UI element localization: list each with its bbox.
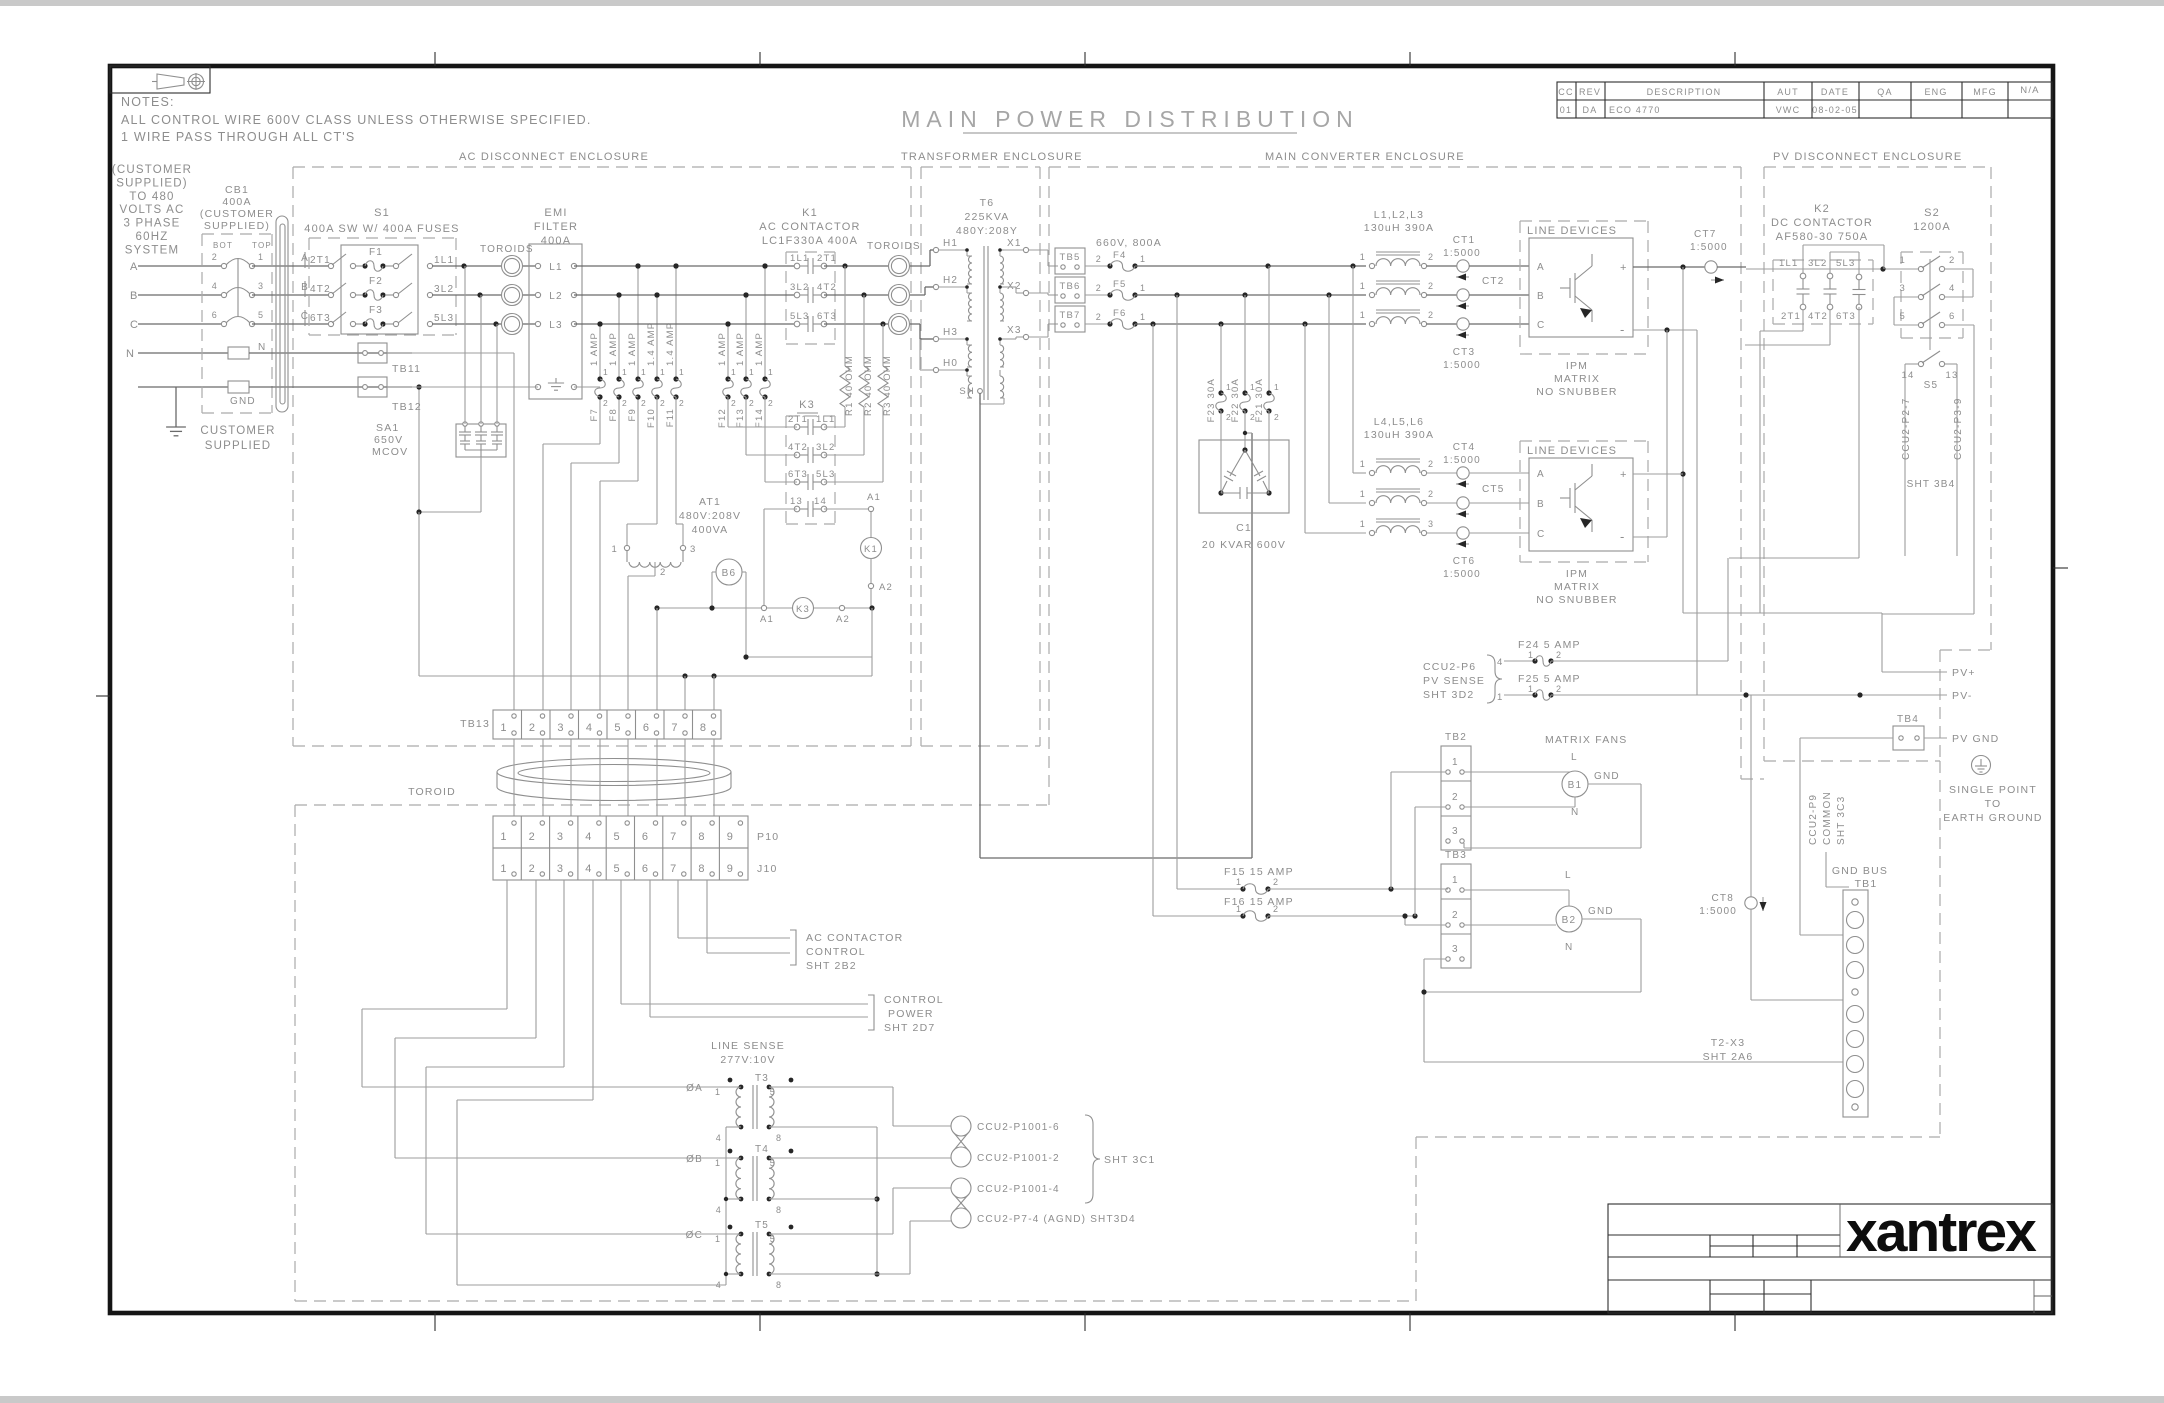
terminal block TB6: [1055, 277, 1085, 303]
svg-text:AC CONTACTOR: AC CONTACTOR: [806, 932, 903, 944]
svg-text:7: 7: [670, 863, 677, 875]
svg-text:8: 8: [776, 1205, 782, 1215]
svg-text:(CUSTOMER: (CUSTOMER: [200, 208, 274, 220]
svg-text:S5: S5: [1924, 380, 1939, 391]
contactor K1 dashed box: [786, 252, 835, 344]
svg-text:NOTES:: NOTES:: [121, 95, 175, 109]
connector J10: [493, 848, 778, 880]
svg-text:LINE DEVICES: LINE DEVICES: [1527, 445, 1617, 457]
svg-text:1: 1: [612, 544, 618, 555]
svg-text:CONTROL: CONTROL: [806, 946, 866, 958]
svg-text:F23 30A: F23 30A: [1206, 378, 1217, 422]
svg-text:SH: SH: [959, 386, 975, 397]
contactor K3 dashed box: [786, 416, 835, 524]
wire IPM1 minus output: [1633, 327, 1697, 332]
svg-text:1: 1: [1140, 254, 1146, 264]
svg-text:F13: F13: [735, 408, 746, 428]
svg-text:1.4 AMP: 1.4 AMP: [665, 322, 676, 366]
capacitor bank C1 box: [1199, 411, 1289, 513]
svg-text:LINE SENSE: LINE SENSE: [711, 1040, 785, 1052]
svg-text:N: N: [1571, 807, 1579, 818]
wire J10-3 to phase C sense: [426, 880, 741, 1234]
SA1 labels: [372, 422, 408, 458]
svg-text:1: 1: [1236, 877, 1242, 887]
wire minus bus to PV-: [1696, 330, 1698, 695]
contactor K3 label: [797, 399, 818, 413]
IPM line devices 2 box: [1527, 445, 1633, 551]
GND bus TB1 strip: [1843, 890, 1868, 1117]
PV disconnect enclosure dashed box: [1764, 167, 1991, 761]
svg-text:TB12: TB12: [392, 401, 422, 413]
svg-text:CCU2-P1001-2: CCU2-P1001-2: [977, 1153, 1060, 1164]
svg-text:1: 1: [1360, 489, 1366, 499]
terminal block TB12: [358, 377, 422, 413]
blower B6: [712, 559, 746, 657]
SA1 ground return: [416, 384, 481, 514]
fuse F4: [1085, 250, 1146, 271]
wire C S1 to EMI: [432, 321, 538, 326]
svg-text:T3: T3: [755, 1073, 769, 1084]
wire J10-1 to phase A sense: [362, 880, 741, 1087]
svg-text:N: N: [258, 342, 266, 353]
wire A CB1 to S1: [252, 265, 331, 267]
wire T3-5 to CCU2 pair1 top: [769, 1087, 951, 1126]
svg-text:5: 5: [614, 863, 621, 875]
PV sense labels: [1423, 655, 1503, 703]
svg-text:L: L: [1571, 752, 1578, 763]
svg-text:TOP: TOP: [252, 241, 272, 250]
switch S1 pole A fuse F1: [301, 247, 454, 271]
svg-text:K1: K1: [802, 207, 818, 219]
twisted pair 2: [951, 1178, 971, 1228]
svg-text:5L3: 5L3: [790, 311, 809, 322]
svg-text:2: 2: [1428, 310, 1434, 320]
svg-text:2: 2: [1428, 252, 1434, 262]
svg-text:2: 2: [529, 863, 536, 875]
fuse F15 15 AMP: [1177, 295, 1448, 894]
AC disconnect enclosure dashed box: [293, 167, 911, 746]
toroid A1: [502, 256, 523, 277]
toroid A2: [889, 256, 910, 277]
svg-text:AUT: AUT: [1777, 87, 1799, 97]
SA1 phase risers: [465, 266, 497, 424]
EMI filter terminals L1: [535, 262, 576, 273]
svg-text:F3: F3: [369, 305, 383, 316]
contactor K1 pole A: [790, 253, 837, 274]
switch S1 inner box: [341, 245, 418, 334]
svg-text:2: 2: [1273, 877, 1279, 887]
svg-text:6T3: 6T3: [788, 469, 808, 480]
svg-text:GND: GND: [1588, 906, 1614, 917]
svg-text:+: +: [1620, 469, 1628, 481]
svg-text:4: 4: [1949, 283, 1955, 294]
svg-text:TOROIDS: TOROIDS: [480, 244, 534, 255]
svg-text:6T3: 6T3: [817, 311, 837, 322]
fuse F9 1 AMP: [627, 263, 647, 421]
earth ground symbol: [1972, 756, 1991, 775]
svg-text:277V:10V: 277V:10V: [720, 1054, 775, 1066]
svg-text:CT2: CT2: [1482, 276, 1505, 287]
svg-text:TB5: TB5: [1059, 252, 1080, 263]
neutral inline device: [228, 342, 266, 359]
wire F12 to K3 pole1: [728, 397, 797, 427]
svg-text:LC1F330A 400A: LC1F330A 400A: [762, 235, 858, 247]
wire control return bus: [419, 512, 872, 679]
svg-text:F9: F9: [627, 408, 638, 422]
svg-text:xantrex: xantrex: [1846, 1200, 2037, 1264]
svg-text:225KVA: 225KVA: [965, 211, 1010, 223]
IPM line devices 1 dashed box: [1520, 221, 1648, 354]
contactor K3 pole 2: [788, 442, 835, 463]
title block: [1608, 1204, 2052, 1313]
wire phase C in: [138, 323, 224, 325]
EMI filter terminals L2: [535, 291, 576, 302]
toroid C2: [889, 314, 910, 335]
IPM matrix label 1: [1536, 360, 1617, 398]
svg-text:1: 1: [1360, 252, 1366, 262]
contactor K2 labels: [1771, 203, 1873, 243]
svg-text:CCU2-P2-7: CCU2-P2-7: [1901, 398, 1912, 460]
wire B S1 to EMI: [432, 292, 538, 297]
svg-text:2: 2: [529, 722, 536, 734]
wire plus bus riser: [1633, 267, 1686, 613]
svg-text:1: 1: [768, 367, 774, 377]
svg-text:A: A: [130, 261, 139, 273]
svg-text:60HZ: 60HZ: [136, 231, 169, 243]
wire H0 link: [920, 339, 934, 370]
svg-text:14: 14: [814, 496, 827, 507]
svg-text:C: C: [1537, 320, 1545, 331]
sheet border frame: [110, 66, 2053, 1313]
svg-text:4: 4: [716, 1205, 722, 1215]
svg-text:1 AMP: 1 AMP: [589, 332, 600, 366]
wire neutral in: [138, 352, 228, 354]
EMI filter labels: [534, 207, 578, 247]
switch S1 labels: [304, 207, 459, 235]
wire A EMI to K1: [574, 263, 797, 268]
fuse F7 1 AMP: [589, 321, 609, 421]
wire PV plus bus: [1683, 307, 1947, 672]
wire SH shield run: [980, 393, 1252, 858]
svg-text:480V:208V: 480V:208V: [679, 510, 741, 522]
svg-text:L: L: [1565, 870, 1572, 881]
fuse F23 30A: [1206, 324, 1232, 422]
svg-text:1: 1: [715, 1234, 721, 1244]
svg-text:8: 8: [698, 863, 705, 875]
coil K3: [760, 598, 875, 626]
svg-text:N: N: [126, 348, 135, 360]
svg-text:SUPPLIED): SUPPLIED): [116, 177, 188, 189]
svg-text:1:5000: 1:5000: [1443, 360, 1481, 371]
svg-text:400A: 400A: [541, 235, 572, 247]
svg-text:2: 2: [1274, 412, 1280, 422]
svg-text:1: 1: [660, 367, 666, 377]
switch S2 links: [1894, 259, 1974, 350]
ground lead down: [175, 387, 177, 427]
wire F13 to K3 pole2: [746, 397, 797, 455]
wire F10 to AT1-1: [627, 397, 657, 545]
svg-text:1: 1: [1900, 255, 1906, 266]
wire J10-8 contactor control 2: [707, 880, 790, 953]
switch S2 dashed box: [1901, 252, 1963, 338]
switch S1 pole B fuse F2: [301, 276, 454, 300]
svg-text:1: 1: [1360, 281, 1366, 291]
svg-text:K3: K3: [799, 399, 815, 411]
fold tick marks bottom: [434, 1313, 436, 1331]
svg-text:CT5: CT5: [1482, 484, 1505, 495]
wire J10-7 contactor control 1: [678, 880, 790, 938]
svg-text:F2: F2: [369, 276, 383, 287]
svg-text:2T1: 2T1: [1781, 311, 1801, 322]
wire R2 to K3 pole2: [824, 407, 864, 455]
svg-text:TO: TO: [1985, 798, 2002, 810]
fuse F21 30A: [1254, 266, 1280, 422]
svg-text:3L2: 3L2: [434, 284, 454, 295]
svg-text:9: 9: [727, 863, 734, 875]
svg-text:NO SNUBBER: NO SNUBBER: [1536, 594, 1617, 606]
inductor L2: [1360, 281, 1434, 298]
svg-text:SYSTEM: SYSTEM: [125, 244, 180, 256]
svg-text:X1: X1: [1007, 238, 1022, 249]
breaker CB1 pole C: [212, 310, 264, 327]
svg-text:B: B: [1537, 291, 1545, 302]
svg-text:8: 8: [700, 722, 707, 734]
svg-text:2: 2: [1096, 312, 1102, 322]
svg-text:REV: REV: [1579, 87, 1601, 97]
svg-text:K1: K1: [864, 544, 878, 555]
svg-text:CT6: CT6: [1453, 556, 1476, 567]
svg-text:L2: L2: [549, 291, 563, 302]
svg-text:S1: S1: [374, 207, 390, 219]
svg-text:CONTROL: CONTROL: [884, 994, 944, 1006]
svg-text:3: 3: [557, 863, 564, 875]
contactor K2 dashed box: [1773, 260, 1873, 324]
svg-text:CT1: CT1: [1453, 235, 1476, 246]
svg-text:TB13: TB13: [460, 718, 490, 730]
svg-text:T5: T5: [755, 1220, 769, 1231]
svg-text:1: 1: [1528, 650, 1534, 660]
svg-text:6T3: 6T3: [310, 313, 331, 324]
svg-text:ENG: ENG: [1924, 87, 1947, 97]
svg-text:5L3: 5L3: [434, 313, 454, 324]
fuse F5: [1085, 279, 1146, 300]
svg-text:B6: B6: [722, 568, 737, 579]
svg-text:1 AMP: 1 AMP: [754, 332, 765, 366]
svg-text:LINE DEVICES: LINE DEVICES: [1527, 225, 1617, 237]
svg-text:8: 8: [698, 831, 705, 843]
CT3 current transformer: [1427, 318, 1529, 371]
svg-text:F8: F8: [608, 408, 619, 422]
svg-text:SUPPLIED: SUPPLIED: [205, 440, 271, 452]
svg-text:2: 2: [1096, 254, 1102, 264]
terminal block TB13: [460, 710, 721, 739]
fuse F24 5 AMP: [1504, 558, 1728, 666]
svg-text:CCU2-P7-4 (AGND) SHT3D4: CCU2-P7-4 (AGND) SHT3D4: [977, 1214, 1136, 1225]
wire ground in: [138, 386, 228, 388]
svg-text:4: 4: [1497, 657, 1503, 668]
wire X2 to TB6: [1029, 293, 1058, 295]
svg-text:2: 2: [768, 398, 774, 408]
svg-text:3: 3: [690, 544, 696, 555]
terminal block TB11: [358, 343, 421, 375]
svg-text:400VA: 400VA: [692, 524, 729, 536]
svg-text:F16 15 AMP: F16 15 AMP: [1224, 896, 1294, 908]
svg-text:1: 1: [641, 367, 647, 377]
svg-text:6: 6: [212, 310, 218, 320]
inductor bank L4 L5 L6 labels: [1364, 416, 1434, 441]
wire X1 to TB5: [1029, 250, 1058, 266]
svg-text:MAIN POWER DISTRIBUTION: MAIN POWER DISTRIBUTION: [901, 106, 1358, 132]
CCU2-P9 common labels: [1808, 791, 1849, 887]
resistor R2 40 OHM: [859, 295, 874, 416]
svg-text:2: 2: [749, 398, 755, 408]
wire A S1 to EMI: [432, 263, 538, 268]
breaker CB1 pole A: [212, 252, 264, 269]
wire S2-6 to PV plus: [1882, 325, 1974, 614]
svg-text:4: 4: [716, 1280, 722, 1290]
svg-text:SHT 2B2: SHT 2B2: [806, 960, 857, 972]
svg-text:1 WIRE PASS THROUGH ALL CT'S: 1 WIRE PASS THROUGH ALL CT'S: [121, 130, 355, 144]
svg-text:L1,L2,L3: L1,L2,L3: [1374, 209, 1424, 221]
svg-text:1L1: 1L1: [790, 253, 809, 264]
fuse F25 5 AMP: [1504, 673, 1700, 700]
toroid B1: [502, 285, 523, 306]
wire AT1 tap2 to TB13-5: [628, 562, 655, 710]
svg-text:8: 8: [776, 1133, 782, 1143]
svg-text:7: 7: [670, 831, 677, 843]
svg-text:13: 13: [790, 496, 803, 507]
wire X3 to TB7: [1029, 324, 1058, 337]
svg-text:2: 2: [1428, 281, 1434, 291]
svg-text:4: 4: [585, 831, 592, 843]
contactor K2 top bus: [1803, 245, 1884, 274]
contactor K2 pole 5L3-6T3: [1836, 258, 1866, 322]
svg-text:ØA: ØA: [686, 1083, 703, 1094]
transformer T6 primary terminals: [933, 238, 958, 373]
svg-text:TO 480: TO 480: [129, 191, 174, 203]
svg-text:+: +: [1620, 262, 1628, 274]
ground symbol customer: [166, 427, 186, 436]
svg-text:PV DISCONNECT ENCLOSURE: PV DISCONNECT ENCLOSURE: [1773, 151, 1962, 163]
wire F14 to K3 pole3: [765, 397, 797, 482]
svg-text:POWER: POWER: [888, 1008, 934, 1020]
transformer T6 secondary winding: [998, 248, 1004, 398]
svg-text:5: 5: [614, 831, 621, 843]
wire GND to TB12: [249, 386, 412, 388]
svg-text:2: 2: [622, 398, 628, 408]
IPM line devices 2 dashed box: [1520, 441, 1648, 562]
toroid B2: [889, 285, 910, 306]
svg-text:2: 2: [1428, 489, 1434, 499]
svg-text:1 AMP: 1 AMP: [608, 332, 619, 366]
wire A1 bus to TB13-6: [656, 608, 658, 710]
svg-text:SHT 2D7: SHT 2D7: [884, 1022, 935, 1034]
svg-text:A: A: [1537, 469, 1545, 480]
T2-X3 labels: [1703, 1037, 1754, 1063]
svg-text:SHT 3C1: SHT 3C1: [1104, 1154, 1155, 1166]
SA1 box: [456, 422, 506, 457]
svg-text:SHT 3C3: SHT 3C3: [1836, 796, 1847, 845]
svg-text:BOT: BOT: [213, 241, 233, 250]
toroid C1: [502, 314, 523, 335]
svg-text:F4: F4: [1113, 250, 1127, 261]
svg-text:3L2: 3L2: [1808, 258, 1827, 269]
svg-text:2: 2: [1096, 283, 1102, 293]
switch S1 dashed box: [309, 238, 456, 335]
wire A1 bus: [654, 605, 764, 610]
wire J10-5 control power 1: [621, 880, 868, 1004]
svg-text:CCU2-P6: CCU2-P6: [1423, 661, 1476, 673]
svg-text:MATRIX: MATRIX: [1554, 581, 1600, 593]
svg-text:-: -: [1620, 322, 1626, 337]
svg-text:PV SENSE: PV SENSE: [1423, 675, 1485, 687]
svg-text:F7: F7: [589, 408, 600, 422]
wire return to TB13-8: [713, 676, 715, 710]
IPM matrix label 2: [1536, 568, 1617, 606]
wire N to TB11: [249, 352, 412, 354]
wire F8 to TB13-3: [571, 397, 619, 710]
GND bus TB1 labels: [1832, 865, 1888, 890]
svg-text:PV GND: PV GND: [1952, 733, 1999, 745]
svg-text:1: 1: [731, 367, 737, 377]
svg-text:IPM: IPM: [1566, 360, 1588, 372]
wire L4 feed: [1353, 266, 1366, 473]
wire T3-8 common down: [769, 1127, 880, 1277]
svg-text:H1: H1: [943, 238, 958, 249]
svg-text:AT1: AT1: [699, 496, 721, 508]
transformer T5: [686, 1220, 794, 1290]
inductor L3: [1360, 310, 1434, 327]
svg-text:NO SNUBBER: NO SNUBBER: [1536, 386, 1617, 398]
svg-text:ØB: ØB: [686, 1154, 703, 1165]
contactor K2 pole 3L2-4T2: [1808, 258, 1837, 322]
svg-text:01: 01: [1560, 105, 1572, 115]
transformer T6 labels: [956, 197, 1018, 237]
svg-text:A2: A2: [836, 614, 850, 625]
svg-text:T4: T4: [755, 1144, 769, 1155]
svg-text:CT3: CT3: [1453, 347, 1476, 358]
svg-text:1L1: 1L1: [434, 255, 454, 266]
svg-text:CB1: CB1: [225, 184, 249, 196]
svg-text:4: 4: [586, 722, 593, 734]
svg-text:2: 2: [1428, 459, 1434, 469]
svg-text:DA: DA: [1583, 105, 1598, 115]
capacitor C1 labels: [1202, 522, 1286, 551]
wire phase A in: [138, 265, 224, 267]
twisted pair 1: [951, 1116, 971, 1167]
svg-text:K2: K2: [1814, 203, 1830, 215]
wire row B to L2: [1135, 292, 1366, 297]
wire GND TB12 to EMI: [387, 386, 538, 388]
svg-text:400A SW W/ 400A FUSES: 400A SW W/ 400A FUSES: [304, 223, 459, 235]
contactor K3 pole 3: [788, 469, 835, 490]
inductor L4: [1360, 459, 1434, 476]
svg-text:2: 2: [1556, 684, 1562, 694]
svg-text:CCU2-P9: CCU2-P9: [1808, 794, 1819, 845]
svg-text:1 AMP: 1 AMP: [717, 332, 728, 366]
breaker CB1 labels: [200, 184, 274, 232]
svg-text:1: 1: [622, 367, 628, 377]
svg-text:IPM: IPM: [1566, 568, 1588, 580]
svg-text:TB2: TB2: [1445, 732, 1467, 743]
svg-text:1L1: 1L1: [1779, 258, 1798, 269]
svg-text:1: 1: [500, 863, 507, 875]
customer source text: [112, 164, 192, 256]
page top gray edge: [0, 0, 2164, 6]
svg-text:3: 3: [1452, 826, 1459, 837]
contactor K3 pole 1: [788, 414, 835, 435]
wire F11 to AT1-3: [676, 397, 683, 545]
